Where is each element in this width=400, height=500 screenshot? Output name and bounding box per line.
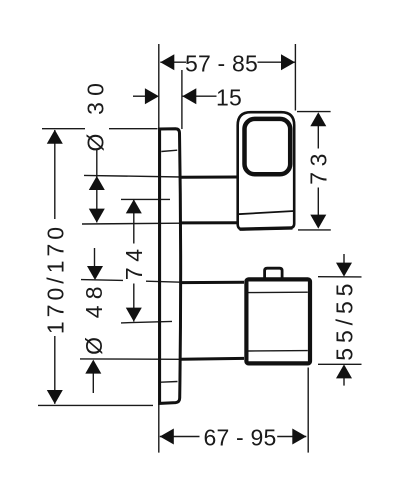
svg-text:57 - 85: 57 - 85 (185, 50, 258, 76)
svg-text:170/170: 170/170 (42, 223, 68, 334)
svg-text:Ø 48: Ø 48 (81, 280, 107, 355)
svg-text:67 - 95: 67 - 95 (203, 425, 276, 451)
svg-text:73: 73 (306, 148, 332, 185)
svg-text:74: 74 (121, 243, 147, 280)
svg-text:15: 15 (216, 84, 242, 110)
svg-text:55/55: 55/55 (332, 279, 358, 361)
svg-text:Ø 30: Ø 30 (83, 77, 109, 152)
